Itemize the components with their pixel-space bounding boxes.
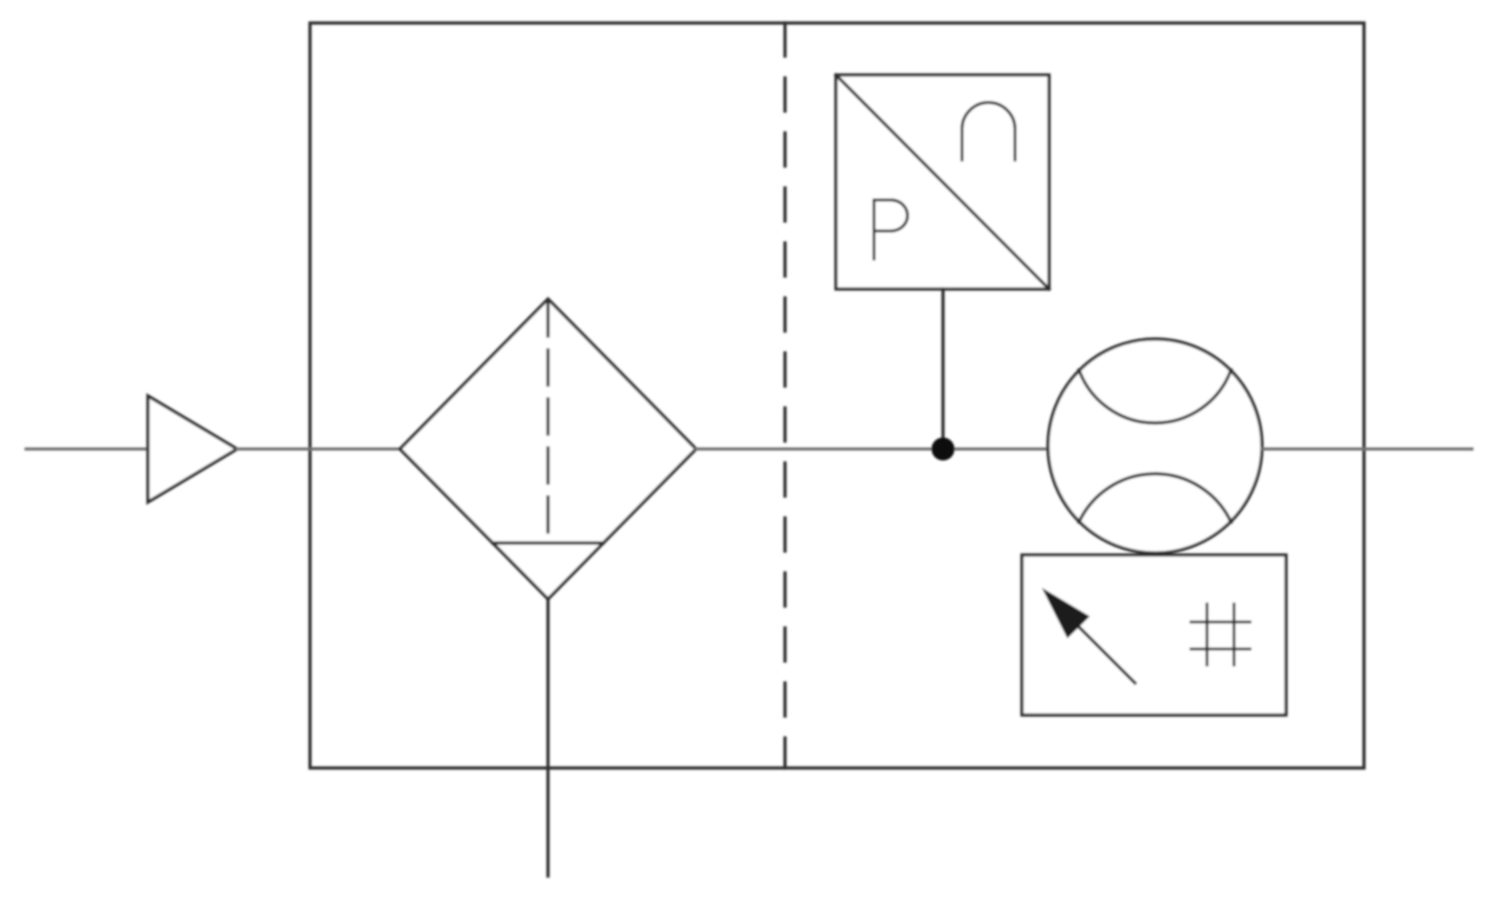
- flow meter FM1 (circle): [1048, 339, 1262, 553]
- pressure switch arch symbol: [962, 103, 1015, 160]
- dashed divider line: [783, 23, 786, 768]
- wire: condensate drain: [546, 599, 549, 876]
- wire: flow sensor to outlet: [1262, 448, 1472, 451]
- display / adjustment box: [1022, 555, 1286, 715]
- wire: triangle to filter: [237, 448, 400, 451]
- wire: filter to flow sensor: [696, 448, 1049, 451]
- label P: [874, 200, 908, 259]
- hash symbol (digital display): [1191, 604, 1250, 665]
- wire: sensing line: [941, 289, 944, 449]
- filter element dashed center line: [546, 301, 549, 543]
- enclosure rectangle: [310, 23, 1364, 768]
- filter F1 (diamond): [400, 299, 696, 599]
- input flow arrow (triangle): [148, 396, 237, 502]
- adjustment arrow head: [1043, 589, 1089, 638]
- adjustment arrow shaft: [1072, 620, 1135, 683]
- flow meter lower arc: [1079, 474, 1231, 522]
- filter condensate chord: [493, 541, 603, 544]
- wire: left supply lead: [26, 448, 148, 451]
- junction node: [932, 438, 955, 461]
- flow meter upper arc: [1079, 370, 1231, 423]
- pressure sensor U1 (square with diagonal): [836, 75, 1049, 289]
